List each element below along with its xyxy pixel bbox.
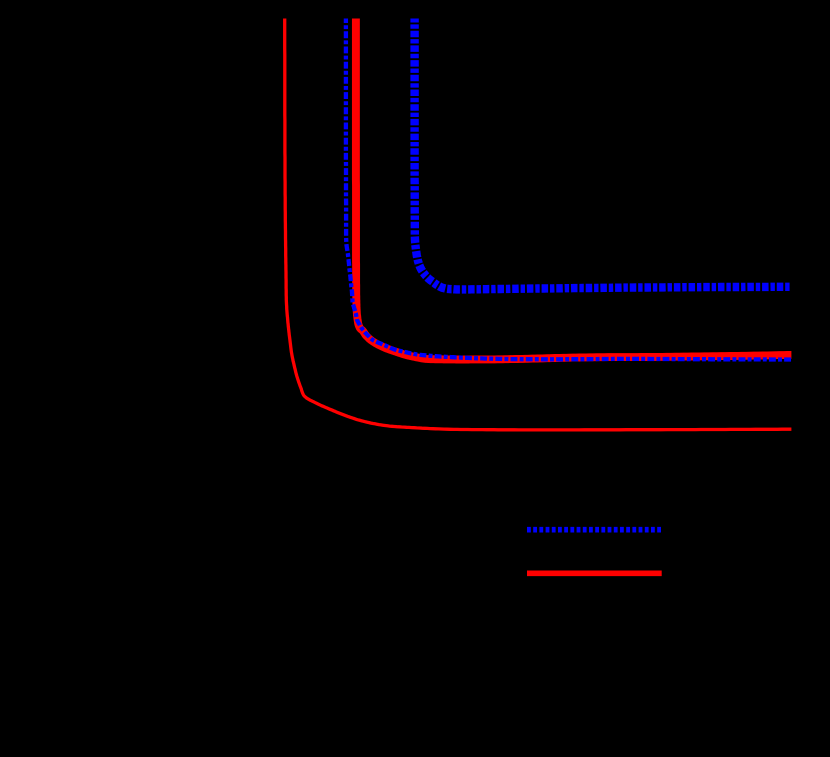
thin red curve [285, 19, 792, 430]
legend red solid sample line [527, 570, 662, 576]
blue thick dash-dot curve [415, 19, 792, 290]
legend blue dotted sample line [527, 527, 662, 533]
thick red curve [356, 19, 792, 360]
blue medium dash-dot curve [346, 19, 792, 360]
